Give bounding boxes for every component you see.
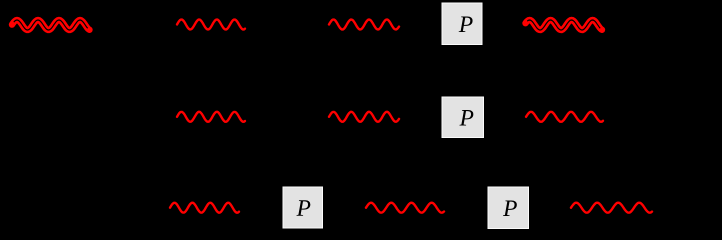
bare photon propagator (row 3, left): [170, 203, 239, 213]
bare photon propagator (row 1, term 1): [177, 20, 245, 30]
bare photon propagator (row 1, term 2 left): [329, 20, 399, 30]
bare photon propagator (row 2, term 2 right): [526, 112, 603, 122]
polarization insertion P box (row 3, first): [283, 187, 323, 228]
polarization insertion P box (row 1): [442, 3, 482, 45]
bare photon propagator (row 3, right): [571, 203, 652, 213]
polarization insertion P box (row 3, second): [488, 187, 529, 229]
bold dressed photon propagator G (row 1, LHS): [12, 20, 90, 30]
bare photon propagator (row 2, term 1): [177, 112, 245, 122]
bold dressed photon propagator G (row 1, term 2 right): [526, 20, 603, 30]
bare photon propagator (row 3, middle): [366, 203, 444, 213]
bare photon propagator (row 2, term 2 left): [329, 112, 399, 122]
polarization insertion P box (row 2): [442, 97, 484, 138]
